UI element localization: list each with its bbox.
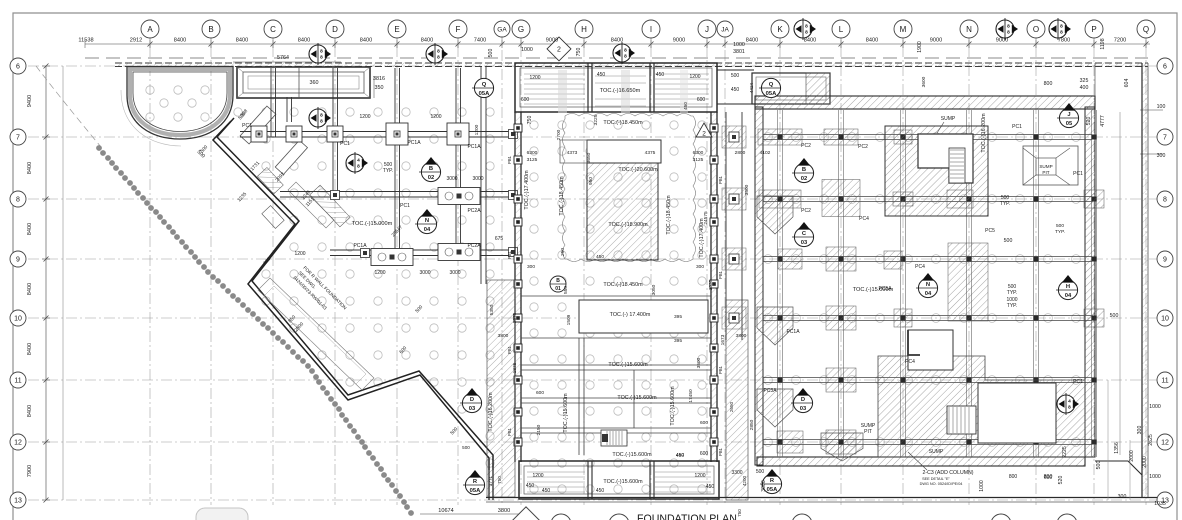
svg-text:TOC.(-)15.600m: TOC.(-)15.600m (608, 362, 648, 368)
svg-text:450: 450 (542, 488, 551, 494)
svg-text:12: 12 (14, 440, 22, 447)
svg-text:TOC.(-)15.600m: TOC.(-)15.600m (603, 479, 643, 485)
svg-text:1200: 1200 (694, 473, 705, 479)
svg-text:FOUNDATION PLAN: FOUNDATION PLAN (637, 513, 737, 520)
svg-text:8: 8 (1068, 405, 1071, 411)
svg-text:2700: 2700 (556, 129, 562, 140)
svg-text:4424: 4424 (749, 82, 754, 93)
svg-text:11: 11 (14, 378, 21, 385)
svg-text:300: 300 (1157, 153, 1166, 159)
svg-text:PC5: PC5 (985, 228, 995, 234)
svg-text:PB1: PB1 (507, 155, 512, 164)
svg-text:1200: 1200 (689, 74, 700, 80)
svg-text:3000: 3000 (446, 176, 457, 182)
svg-text:SUMP: SUMP (941, 116, 956, 122)
svg-text:8: 8 (1060, 24, 1063, 30)
svg-text:1200: 1200 (374, 270, 385, 276)
svg-text:3816: 3816 (373, 76, 385, 82)
svg-text:450: 450 (597, 72, 606, 78)
svg-text:3000: 3000 (419, 270, 430, 276)
svg-text:TOC.(-)16.650m: TOC.(-)16.650m (600, 88, 641, 94)
svg-text:TOC.(-)15.000m: TOC.(-)15.000m (352, 221, 393, 227)
svg-text:8: 8 (320, 49, 323, 55)
svg-text:300: 300 (1137, 426, 1143, 435)
svg-text:H: H (1066, 284, 1070, 290)
svg-text:600: 600 (521, 97, 530, 103)
svg-text:450: 450 (683, 102, 688, 110)
svg-text:N: N (966, 25, 972, 34)
svg-text:500: 500 (1056, 223, 1064, 229)
svg-text:4: 4 (357, 158, 360, 164)
svg-text:395: 395 (674, 338, 682, 344)
svg-text:9000: 9000 (996, 38, 1008, 44)
svg-text:8400: 8400 (360, 38, 372, 44)
svg-text:2: 2 (702, 131, 706, 138)
svg-text:800: 800 (1044, 81, 1053, 87)
svg-text:3335: 3335 (708, 279, 714, 290)
svg-text:2000: 2000 (1142, 456, 1148, 468)
svg-text:300: 300 (1118, 494, 1127, 500)
svg-text:1000: 1000 (733, 42, 745, 48)
svg-text:8: 8 (320, 113, 323, 119)
svg-text:4777: 4777 (1100, 115, 1106, 127)
svg-text:1509: 1509 (566, 314, 572, 325)
svg-text:1200: 1200 (529, 75, 540, 81)
svg-text:500: 500 (1110, 313, 1119, 319)
svg-text:9400: 9400 (27, 95, 33, 107)
svg-text:10674: 10674 (438, 508, 454, 514)
svg-text:7900: 7900 (27, 465, 33, 477)
svg-text:D: D (801, 397, 805, 403)
svg-text:17450: 17450 (688, 389, 694, 403)
svg-text:300: 300 (696, 264, 704, 270)
svg-text:11538: 11538 (78, 38, 93, 44)
svg-text:9: 9 (1163, 257, 1167, 264)
svg-text:1875: 1875 (512, 312, 518, 323)
svg-text:2650: 2650 (729, 401, 734, 412)
svg-text:8: 8 (624, 54, 627, 60)
svg-text:600: 600 (700, 420, 708, 426)
svg-text:8: 8 (805, 30, 808, 36)
svg-text:P: P (1091, 25, 1096, 34)
svg-text:1200: 1200 (430, 114, 441, 120)
svg-text:8400: 8400 (27, 223, 33, 235)
svg-text:8: 8 (1007, 24, 1010, 30)
svg-text:PC4: PC4 (859, 216, 869, 222)
svg-text:D: D (470, 397, 474, 403)
svg-text:3125: 3125 (693, 157, 704, 163)
svg-text:3050: 3050 (651, 284, 657, 295)
svg-text:6300: 6300 (527, 150, 538, 156)
svg-text:8: 8 (320, 119, 323, 125)
svg-text:520: 520 (1086, 117, 1092, 126)
svg-text:1000: 1000 (979, 480, 985, 492)
svg-text:8: 8 (357, 164, 360, 170)
svg-text:950: 950 (588, 177, 594, 185)
svg-text:5764: 5764 (277, 55, 289, 61)
svg-text:520: 520 (1058, 476, 1064, 485)
svg-text:K: K (777, 25, 783, 34)
svg-text:TOC.(-)18.450m: TOC.(-)18.450m (559, 176, 565, 216)
svg-text:1200: 1200 (359, 114, 370, 120)
svg-text:450: 450 (596, 488, 605, 494)
svg-text:PB1: PB1 (507, 427, 512, 436)
svg-text:F: F (456, 25, 461, 34)
svg-text:500: 500 (756, 469, 765, 475)
svg-text:10: 10 (1161, 316, 1169, 323)
svg-text:360: 360 (310, 80, 319, 86)
svg-text:05A: 05A (470, 488, 481, 494)
svg-text:1000: 1000 (1149, 474, 1161, 480)
svg-text:6: 6 (16, 64, 20, 71)
svg-text:1900: 1900 (917, 41, 923, 53)
svg-text:8: 8 (1007, 30, 1010, 36)
svg-text:PC1: PC1 (1012, 124, 1022, 130)
svg-text:TOC.(-)16.200m: TOC.(-)16.200m (488, 392, 494, 432)
svg-text:TYP.: TYP. (1055, 229, 1065, 235)
svg-text:450: 450 (596, 254, 604, 260)
svg-text:J: J (1067, 112, 1070, 118)
svg-text:9000: 9000 (930, 38, 942, 44)
svg-text:N: N (425, 218, 429, 224)
svg-text:500: 500 (488, 49, 494, 58)
svg-text:01: 01 (555, 286, 561, 292)
svg-text:TOC.(-)16.200m: TOC.(-)16.200m (981, 113, 987, 153)
svg-text:2150: 2150 (536, 424, 542, 435)
svg-text:D: D (332, 25, 338, 34)
svg-text:Q: Q (769, 82, 774, 88)
svg-text:4102: 4102 (760, 150, 771, 156)
svg-text:TOC.(-)15.600m: TOC.(-)15.600m (670, 386, 676, 426)
svg-text:O: O (1033, 25, 1039, 34)
svg-text:8400: 8400 (804, 38, 816, 44)
svg-text:SUMP: SUMP (1039, 164, 1052, 169)
svg-text:PIT: PIT (1042, 170, 1049, 175)
svg-text:3500: 3500 (744, 184, 750, 195)
svg-text:100: 100 (1157, 104, 1166, 110)
svg-text:TOC.(-)17.400m: TOC.(-)17.400m (524, 170, 530, 210)
svg-text:1673: 1673 (720, 334, 726, 345)
svg-text:TOC.(-)15.600m: TOC.(-)15.600m (617, 395, 657, 401)
svg-text:1200: 1200 (532, 473, 543, 479)
svg-text:350: 350 (375, 85, 384, 91)
svg-text:04: 04 (1065, 293, 1072, 299)
svg-text:4373: 4373 (567, 150, 578, 156)
svg-text:400: 400 (1080, 85, 1089, 91)
svg-text:TOC.(-)15.600m: TOC.(-)15.600m (563, 393, 569, 433)
svg-text:2: 2 (557, 47, 561, 54)
svg-text:500: 500 (1004, 238, 1013, 244)
svg-text:B: B (208, 25, 213, 34)
svg-text:3600: 3600 (921, 76, 927, 87)
svg-text:2225: 2225 (1062, 446, 1068, 458)
svg-text:1356: 1356 (1114, 442, 1120, 454)
svg-text:24575: 24575 (703, 211, 709, 225)
svg-text:8: 8 (1163, 197, 1167, 204)
svg-text:7: 7 (1163, 135, 1167, 142)
svg-text:10: 10 (14, 316, 22, 323)
svg-text:300: 300 (527, 264, 535, 270)
svg-text:8: 8 (437, 55, 440, 61)
svg-text:600: 600 (697, 97, 706, 103)
svg-text:1035: 1035 (1154, 501, 1166, 507)
svg-text:12: 12 (1161, 440, 1169, 447)
svg-text:7: 7 (16, 135, 20, 142)
svg-text:A: A (147, 25, 153, 34)
svg-text:Q: Q (482, 82, 487, 88)
svg-text:3800: 3800 (736, 333, 747, 339)
svg-text:SEE DETAIL "E": SEE DETAIL "E" (922, 477, 950, 481)
svg-text:PC1: PC1 (400, 203, 410, 209)
svg-text:PC5A: PC5A (878, 286, 892, 292)
svg-text:03: 03 (801, 240, 808, 246)
svg-text:8400: 8400 (421, 38, 433, 44)
svg-text:05A: 05A (766, 91, 777, 97)
svg-text:B: B (429, 166, 433, 172)
svg-text:3300: 3300 (731, 470, 742, 476)
svg-text:3500: 3500 (696, 357, 702, 368)
svg-text:8400: 8400 (298, 38, 310, 44)
svg-text:PB1: PB1 (718, 365, 723, 374)
svg-text:PIT: PIT (864, 429, 872, 435)
svg-text:TOC.(-)18.450m: TOC.(-)18.450m (603, 282, 643, 288)
svg-text:PC1: PC1 (340, 141, 350, 147)
svg-text:550: 550 (563, 286, 569, 294)
svg-text:675: 675 (495, 236, 504, 242)
svg-text:8: 8 (624, 48, 627, 54)
svg-text:2800: 2800 (735, 150, 746, 156)
svg-text:PC1A: PC1A (786, 329, 800, 335)
svg-text:PC2A: PC2A (467, 208, 481, 214)
svg-text:9000: 9000 (546, 38, 558, 44)
svg-text:1000: 1000 (1149, 404, 1161, 410)
svg-text:Q: Q (1143, 25, 1149, 34)
svg-text:8400: 8400 (27, 405, 33, 417)
svg-text:5350: 5350 (489, 304, 495, 315)
svg-text:04: 04 (925, 291, 932, 297)
svg-text:1875: 1875 (512, 362, 518, 373)
svg-text:PC2: PC2 (858, 144, 868, 150)
svg-text:PC4: PC4 (905, 359, 915, 365)
svg-text:450: 450 (676, 453, 685, 459)
svg-text:6: 6 (1163, 64, 1167, 71)
svg-text:TYP.: TYP. (1007, 290, 1017, 296)
svg-text:2625: 2625 (1148, 434, 1154, 446)
svg-text:PB1: PB1 (718, 447, 723, 456)
svg-text:750: 750 (497, 476, 502, 484)
svg-text:8400: 8400 (27, 162, 33, 174)
svg-text:05A: 05A (479, 91, 490, 97)
svg-text:600: 600 (536, 390, 544, 396)
svg-text:250: 250 (560, 248, 566, 256)
svg-text:PB1: PB1 (718, 175, 723, 184)
svg-text:3000: 3000 (761, 480, 767, 492)
svg-text:PC1: PC1 (1073, 171, 1083, 177)
svg-text:PC1A: PC1A (467, 144, 481, 150)
svg-text:M: M (900, 25, 907, 34)
svg-text:DWG NO. 0524/ID/PE/04: DWG NO. 0524/ID/PE/04 (920, 482, 963, 486)
svg-text:02: 02 (801, 176, 807, 182)
svg-text:4200: 4200 (742, 475, 747, 486)
svg-text:PC1A: PC1A (353, 243, 367, 249)
svg-text:TOC.(-)18.900m: TOC.(-)18.900m (608, 222, 648, 228)
svg-text:B: B (556, 278, 560, 284)
svg-text:04: 04 (424, 227, 431, 233)
svg-text:TOC.(-)15.600m: TOC.(-)15.600m (612, 452, 652, 458)
svg-text:2912: 2912 (130, 38, 142, 44)
svg-text:600: 600 (700, 451, 709, 457)
svg-text:500: 500 (731, 73, 740, 79)
svg-text:3800: 3800 (498, 508, 510, 514)
svg-text:750: 750 (527, 116, 533, 125)
svg-text:9000: 9000 (673, 38, 685, 44)
svg-text:B: B (802, 167, 806, 173)
svg-text:500: 500 (462, 445, 470, 450)
svg-text:GA: GA (497, 26, 507, 33)
svg-text:7800: 7800 (1058, 38, 1070, 44)
svg-text:TYP.: TYP. (383, 168, 393, 174)
svg-text:TOC.(-)18.450m: TOC.(-)18.450m (666, 195, 672, 235)
svg-text:6300: 6300 (693, 150, 704, 156)
svg-text:604: 604 (1124, 79, 1130, 88)
svg-text:TOC.(-)18.450m: TOC.(-)18.450m (603, 120, 643, 126)
svg-text:PC1A: PC1A (407, 140, 421, 146)
svg-text:H: H (581, 25, 587, 34)
svg-text:8400: 8400 (27, 283, 33, 295)
svg-text:8400: 8400 (236, 38, 248, 44)
svg-text:02: 02 (428, 175, 434, 181)
svg-text:3000: 3000 (472, 176, 483, 182)
svg-text:4: 4 (1068, 399, 1071, 405)
svg-text:8400: 8400 (611, 38, 623, 44)
svg-text:1198: 1198 (1100, 38, 1106, 49)
svg-text:SUMP: SUMP (929, 449, 944, 455)
svg-text:TYP.: TYP. (1000, 201, 1010, 207)
svg-text:7200: 7200 (1114, 38, 1126, 44)
svg-text:2-C3 (ADD COLUMN): 2-C3 (ADD COLUMN) (922, 470, 973, 476)
svg-text:8: 8 (805, 24, 808, 30)
svg-text:3125: 3125 (527, 157, 538, 163)
svg-text:2000: 2000 (1129, 450, 1135, 462)
svg-text:C: C (270, 25, 276, 34)
svg-text:395: 395 (674, 314, 682, 320)
svg-text:9: 9 (16, 257, 20, 264)
svg-text:05A: 05A (767, 487, 778, 493)
svg-text:PC1: PC1 (1073, 379, 1083, 385)
svg-text:2850: 2850 (749, 419, 755, 430)
svg-text:450: 450 (731, 87, 740, 93)
svg-text:05: 05 (1066, 121, 1073, 127)
svg-text:PC2: PC2 (801, 143, 811, 149)
svg-text:8400: 8400 (866, 38, 878, 44)
svg-text:1200: 1200 (294, 251, 305, 257)
svg-text:PB1: PB1 (507, 250, 512, 259)
svg-text:750: 750 (737, 509, 742, 517)
svg-text:J: J (705, 25, 709, 34)
svg-text:450: 450 (526, 483, 535, 489)
svg-text:600: 600 (1044, 475, 1053, 481)
svg-text:3771: 3771 (488, 475, 493, 486)
svg-text:3801: 3801 (733, 49, 745, 55)
svg-text:8400: 8400 (746, 38, 758, 44)
svg-text:G: G (518, 25, 524, 34)
svg-text:3800: 3800 (498, 333, 509, 339)
svg-text:450: 450 (656, 72, 665, 78)
svg-text:03: 03 (800, 406, 807, 412)
svg-text:13: 13 (14, 498, 22, 505)
svg-text:500: 500 (1096, 461, 1102, 470)
svg-text:8: 8 (437, 49, 440, 55)
svg-text:N: N (926, 282, 930, 288)
svg-text:8: 8 (320, 55, 323, 61)
svg-text:TOC.(-)20.600m: TOC.(-)20.600m (618, 167, 658, 173)
svg-text:1200: 1200 (474, 124, 480, 135)
svg-text:450: 450 (706, 484, 715, 490)
svg-text:PB1: PB1 (718, 270, 723, 279)
svg-text:JA: JA (721, 26, 729, 33)
svg-text:8: 8 (1060, 30, 1063, 36)
svg-text:PB1: PB1 (507, 345, 512, 354)
svg-text:E: E (394, 25, 399, 34)
svg-text:11: 11 (1161, 378, 1168, 385)
svg-text:8400: 8400 (174, 38, 186, 44)
svg-text:7400: 7400 (474, 38, 486, 44)
svg-text:1000: 1000 (521, 47, 533, 53)
svg-text:8: 8 (16, 197, 20, 204)
svg-text:L: L (839, 25, 844, 34)
svg-text:TOC.(-) 17.400m: TOC.(-) 17.400m (610, 312, 651, 318)
svg-text:4375: 4375 (645, 150, 656, 156)
svg-text:8400: 8400 (27, 343, 33, 355)
svg-text:TYP.: TYP. (1007, 303, 1017, 309)
svg-text:3225: 3225 (593, 114, 599, 125)
svg-text:3650: 3650 (586, 152, 592, 163)
svg-text:PC2A: PC2A (467, 243, 481, 249)
svg-text:PC3A: PC3A (763, 388, 777, 394)
svg-text:750: 750 (576, 48, 582, 57)
svg-text:PC2: PC2 (801, 208, 811, 214)
svg-text:PC1: PC1 (242, 123, 252, 129)
svg-text:03: 03 (469, 406, 476, 412)
svg-text:325: 325 (1080, 78, 1089, 84)
svg-text:PC4: PC4 (915, 264, 925, 270)
svg-text:I: I (650, 25, 652, 34)
svg-text:3000: 3000 (449, 270, 460, 276)
svg-text:800: 800 (1009, 474, 1018, 480)
